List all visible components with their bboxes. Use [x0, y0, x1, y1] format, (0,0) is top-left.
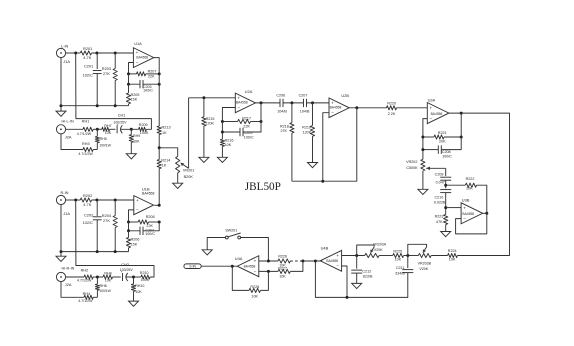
svg-text:100/C: 100/C — [442, 155, 452, 159]
svg-text:R220: R220 — [387, 101, 396, 105]
switch SW201 — [225, 228, 240, 239]
svg-text:J1A: J1A — [63, 59, 70, 64]
svg-text:VR201: VR201 — [183, 169, 195, 173]
svg-text:−: − — [254, 269, 257, 274]
ground — [199, 126, 209, 162]
svg-text:HI-L-IN: HI-L-IN — [62, 120, 74, 124]
svg-text:+: + — [336, 253, 339, 258]
wire — [221, 122, 240, 134]
op-amp U4A — [235, 256, 259, 277]
op-amp U4B — [320, 245, 341, 271]
wire — [444, 180, 447, 188]
wire — [460, 113, 462, 137]
svg-text:U2A: U2A — [245, 89, 253, 94]
wire — [189, 96, 236, 99]
wire — [307, 101, 330, 104]
wire — [483, 212, 489, 215]
svg-text:C207: C207 — [299, 94, 308, 98]
resistor RH4 — [78, 292, 93, 303]
svg-text:R226: R226 — [278, 255, 287, 259]
svg-text:VR203A: VR203A — [373, 243, 387, 247]
wire — [201, 265, 237, 268]
wire — [421, 148, 438, 151]
wire — [61, 250, 129, 253]
resistor R216 — [220, 132, 233, 147]
svg-text:R210: R210 — [140, 271, 149, 275]
wire — [154, 204, 160, 207]
resistor R205 — [126, 84, 139, 106]
wire — [66, 199, 81, 202]
svg-text:R225: R225 — [393, 250, 402, 254]
op-amp U3A — [427, 97, 449, 123]
svg-text:R213: R213 — [162, 125, 171, 129]
svg-text:20K: 20K — [466, 187, 473, 191]
svg-text:BA4558: BA4558 — [330, 106, 342, 110]
wire — [93, 149, 97, 151]
svg-text:0.022B: 0.022B — [434, 200, 446, 204]
svg-text:R205: R205 — [131, 93, 140, 97]
wire — [143, 222, 159, 231]
svg-text:V20K: V20K — [419, 267, 428, 271]
ground — [217, 146, 227, 162]
svg-text:U4B: U4B — [321, 245, 329, 250]
svg-text:20K: 20K — [439, 139, 446, 143]
wire — [221, 120, 238, 123]
op-amp U1B — [134, 186, 155, 214]
resistor R215 — [202, 98, 215, 126]
resistor R214 — [157, 159, 170, 169]
svg-text:10K: 10K — [135, 290, 142, 294]
svg-text:C211: C211 — [396, 266, 405, 270]
wire — [431, 255, 447, 257]
svg-text:22K: 22K — [146, 224, 153, 228]
svg-text:4.7K: 4.7K — [83, 55, 91, 60]
svg-text:120K: 120K — [205, 122, 214, 126]
wire — [66, 52, 81, 55]
svg-text:CH1: CH1 — [118, 113, 126, 117]
resistor R208 — [138, 215, 154, 228]
wire — [110, 128, 116, 130]
wire — [446, 207, 461, 209]
svg-text:U1A: U1A — [134, 41, 142, 46]
svg-text:10K: 10K — [133, 139, 140, 143]
svg-text:4.7K: 4.7K — [83, 202, 91, 207]
capacitor C201 — [83, 53, 102, 106]
wire — [423, 119, 427, 160]
wire — [60, 58, 63, 112]
wire — [404, 254, 419, 257]
resistor R223 — [435, 214, 448, 224]
wire — [261, 271, 269, 290]
op-amp U3B — [461, 197, 483, 223]
wire — [93, 296, 97, 298]
resistor RH10 — [131, 277, 144, 294]
capacitor C202 — [83, 200, 102, 252]
svg-text:RH2: RH2 — [81, 268, 89, 272]
connector J2A (HI-R-IN) — [56, 266, 74, 287]
connector J2A (HI-L-IN) — [56, 120, 74, 140]
ground — [173, 173, 183, 189]
svg-text:C206: C206 — [276, 94, 285, 98]
svg-text:RH4: RH4 — [83, 292, 91, 296]
wire — [342, 254, 365, 257]
svg-text:C500K: C500K — [406, 166, 418, 170]
ground — [202, 250, 212, 255]
svg-text:10K: 10K — [105, 279, 112, 283]
svg-text:R208: R208 — [146, 215, 155, 219]
svg-text:V20K: V20K — [374, 248, 383, 252]
label JBL50P — [245, 181, 281, 193]
ground — [441, 225, 451, 237]
svg-text:10K: 10K — [251, 294, 258, 298]
wire — [158, 135, 161, 160]
wire — [260, 103, 262, 122]
svg-text:10K: 10K — [279, 275, 286, 279]
svg-text:100/1W: 100/1W — [99, 289, 111, 293]
capacitor CH1 — [113, 113, 127, 133]
svg-text:27K: 27K — [103, 71, 110, 76]
wire — [291, 133, 293, 181]
wire — [292, 108, 357, 183]
ground — [352, 273, 362, 289]
resistor R213 — [157, 125, 170, 135]
capacitor C203 — [140, 80, 153, 92]
capacitor C211 — [395, 256, 413, 276]
svg-text:U4A: U4A — [235, 256, 243, 261]
svg-text:R214: R214 — [161, 159, 170, 163]
svg-text:BA4558: BA4558 — [142, 192, 155, 196]
wire — [232, 266, 249, 290]
ground — [56, 111, 66, 116]
wire — [477, 185, 487, 213]
potentiometer VR203B — [418, 253, 432, 270]
capacitor C204 — [140, 227, 155, 237]
svg-text:10K: 10K — [395, 257, 402, 261]
svg-text:+: + — [136, 198, 139, 203]
wire — [357, 245, 375, 256]
resistor RH5 — [95, 129, 111, 149]
svg-text:VR202: VR202 — [406, 160, 417, 164]
wire — [323, 113, 329, 182]
wire — [315, 261, 407, 299]
svg-text:R-IN: R-IN — [61, 190, 69, 195]
svg-text:RH1: RH1 — [82, 120, 90, 124]
svg-text:+: + — [254, 258, 257, 263]
wire — [342, 266, 347, 297]
svg-text:2.2K: 2.2K — [388, 112, 396, 116]
wire — [121, 128, 139, 131]
svg-text:U3B: U3B — [462, 197, 470, 202]
wire — [259, 270, 278, 273]
wire — [180, 98, 188, 169]
svg-text:R224: R224 — [448, 249, 457, 253]
svg-text:4.7/1/2W: 4.7/1/2W — [78, 152, 93, 156]
capacitor C210 — [434, 190, 451, 205]
wire — [127, 221, 138, 224]
connector J1A (L-IN) — [56, 44, 70, 64]
capacitor C205 — [240, 128, 254, 140]
svg-text:100/C: 100/C — [143, 88, 153, 92]
svg-text:R206: R206 — [131, 237, 140, 241]
wire — [259, 260, 278, 263]
svg-text:C208: C208 — [442, 150, 451, 154]
wire — [243, 122, 261, 133]
capacitor C207 — [299, 94, 310, 114]
svg-text:R209: R209 — [139, 123, 148, 127]
svg-text:R201: R201 — [83, 46, 92, 51]
wire — [446, 184, 466, 186]
wire — [92, 199, 134, 202]
potentiometer VR202 — [406, 159, 425, 171]
svg-text:R218: R218 — [280, 124, 289, 128]
capacitor C209 — [435, 168, 452, 184]
resistor R227 — [278, 266, 290, 278]
resistor R228 — [249, 285, 261, 298]
capacitor C208 — [438, 145, 452, 158]
potentiometer VR201 — [176, 156, 195, 179]
svg-text:R202: R202 — [83, 193, 92, 198]
resistor R201 — [80, 46, 92, 60]
svg-text:22K: 22K — [243, 124, 250, 128]
wire — [444, 193, 447, 215]
connector S-IN — [184, 264, 201, 269]
wire — [426, 167, 446, 170]
svg-text:100/C: 100/C — [244, 135, 254, 139]
resistor R225 — [393, 250, 404, 262]
svg-text:−: − — [136, 207, 139, 212]
wire — [158, 169, 160, 206]
svg-text:100/25V: 100/25V — [113, 120, 127, 124]
svg-text:100K: 100K — [140, 131, 149, 135]
resistor R224 — [448, 249, 458, 261]
svg-text:104/B: 104/B — [300, 110, 310, 114]
wire — [60, 205, 63, 257]
wire — [421, 136, 434, 139]
svg-text:R227: R227 — [278, 266, 287, 270]
wire — [113, 276, 121, 278]
op-amp U2B — [329, 93, 349, 117]
wire — [143, 83, 161, 86]
svg-text:J1A: J1A — [63, 211, 70, 216]
ground — [126, 142, 136, 159]
resistor RH1 — [77, 120, 93, 136]
wire — [444, 136, 463, 139]
svg-text:−: − — [336, 264, 339, 269]
svg-text:R215: R215 — [206, 117, 215, 121]
svg-text:RH7: RH7 — [104, 124, 111, 128]
wire — [379, 255, 393, 257]
svg-text:BA4558: BA4558 — [244, 265, 256, 269]
wire — [126, 276, 141, 279]
wire — [127, 74, 140, 86]
ground — [56, 256, 66, 261]
svg-text:15K: 15K — [131, 98, 138, 102]
op-amp U2A — [235, 89, 255, 113]
svg-text:1K: 1K — [162, 164, 167, 168]
resistor R226 — [278, 255, 290, 268]
svg-text:100/C: 100/C — [145, 232, 155, 236]
wire — [66, 128, 83, 130]
svg-text:100K: 100K — [141, 278, 150, 282]
svg-text:BA4558: BA4558 — [136, 56, 148, 60]
svg-text:RH8: RH8 — [104, 272, 111, 276]
svg-text:BA4558: BA4558 — [236, 101, 248, 105]
svg-text:RH3: RH3 — [82, 142, 90, 146]
svg-text:R228: R228 — [250, 285, 259, 289]
svg-text:C209: C209 — [435, 173, 444, 177]
svg-text:BA4558: BA4558 — [431, 112, 443, 116]
wire — [127, 72, 137, 75]
wire — [207, 238, 225, 250]
svg-text:L-IN: L-IN — [61, 44, 69, 49]
wire — [93, 276, 103, 279]
svg-text:27K: 27K — [103, 218, 110, 223]
svg-text:−: − — [430, 116, 433, 121]
svg-text:R222: R222 — [466, 177, 475, 181]
wire — [61, 104, 129, 107]
resistor R210 — [140, 271, 150, 282]
svg-text:4.7/1/2W: 4.7/1/2W — [78, 299, 93, 303]
svg-text:R221: R221 — [438, 131, 447, 135]
svg-text:RH10: RH10 — [135, 284, 144, 288]
svg-text:S-IN: S-IN — [189, 265, 196, 269]
svg-text:120K: 120K — [303, 130, 312, 134]
wire — [76, 53, 152, 129]
resistor RH9 — [129, 129, 140, 143]
capacitor CH2 — [120, 263, 134, 281]
svg-text:RH5: RH5 — [100, 137, 107, 141]
svg-text:−: − — [238, 105, 241, 110]
wire — [408, 244, 427, 255]
svg-text:U1B: U1B — [142, 186, 150, 191]
svg-text:334/B: 334/B — [395, 271, 405, 275]
svg-text:+: + — [136, 50, 139, 55]
svg-text:C210: C210 — [434, 196, 443, 200]
svg-text:J2A: J2A — [65, 282, 72, 287]
wire — [154, 58, 159, 74]
connector J1A (R-IN) — [56, 190, 70, 216]
wire — [349, 106, 386, 109]
svg-text:C212: C212 — [362, 269, 371, 273]
wire — [456, 213, 487, 234]
svg-text:BA4558: BA4558 — [462, 212, 474, 216]
wire — [256, 101, 281, 104]
svg-text:R223: R223 — [435, 214, 444, 218]
resistor R202 — [80, 193, 92, 207]
svg-text:10K: 10K — [449, 257, 456, 261]
resistor RH6 — [95, 277, 111, 297]
wire — [158, 74, 160, 84]
resistor RH7 — [102, 124, 112, 135]
svg-text:4.7/1/2W: 4.7/1/2W — [77, 279, 92, 283]
svg-text:102/C: 102/C — [83, 73, 94, 78]
svg-text:+: + — [430, 105, 433, 110]
svg-text:U3A: U3A — [428, 97, 436, 102]
svg-text:10K: 10K — [225, 143, 232, 147]
resistor R204 — [102, 200, 118, 252]
wire — [222, 108, 235, 122]
resistor R220 — [387, 101, 397, 116]
svg-text:JBL50P: JBL50P — [245, 181, 281, 193]
svg-text:4.7/1/2W: 4.7/1/2W — [77, 132, 92, 136]
resistor R221 — [434, 131, 447, 143]
ground — [418, 171, 428, 195]
wire — [61, 134, 83, 150]
svg-text:100/1W: 100/1W — [99, 144, 111, 148]
svg-text:VR203B: VR203B — [418, 262, 432, 266]
svg-text:RH6: RH6 — [100, 284, 107, 288]
resistor R218 — [280, 103, 294, 133]
svg-text:BA4558: BA4558 — [326, 259, 338, 263]
svg-text:0.047: 0.047 — [436, 180, 445, 184]
svg-text:15K: 15K — [131, 242, 138, 246]
op-amp U1A — [133, 41, 153, 68]
wire — [76, 200, 154, 277]
svg-text:104/B: 104/B — [277, 110, 287, 114]
svg-text:R217: R217 — [242, 117, 251, 121]
svg-text:CH2: CH2 — [121, 263, 129, 267]
wire — [159, 148, 178, 157]
svg-text:47K: 47K — [436, 220, 443, 224]
ground — [129, 291, 139, 306]
resistor R217 — [238, 117, 251, 129]
wire — [301, 260, 322, 263]
svg-text:−: − — [331, 110, 334, 115]
svg-text:22K: 22K — [148, 75, 155, 79]
resistor RH3 — [78, 142, 93, 156]
resistor R222 — [465, 177, 476, 190]
wire — [158, 84, 160, 126]
resistor R206 — [126, 231, 139, 252]
svg-text:−: − — [463, 216, 466, 221]
svg-text:−: − — [136, 60, 139, 65]
svg-text:100/25V: 100/25V — [120, 268, 134, 272]
wire — [129, 210, 134, 222]
svg-text:27K: 27K — [280, 129, 287, 133]
wire — [251, 120, 263, 123]
svg-text:823/B: 823/B — [363, 275, 373, 279]
svg-text:+: + — [463, 206, 466, 211]
svg-text:C202: C202 — [84, 213, 93, 218]
wire — [129, 63, 134, 74]
wire — [127, 222, 140, 232]
wire — [149, 221, 161, 224]
svg-text:J2A: J2A — [65, 135, 72, 140]
svg-text:C201: C201 — [84, 63, 93, 68]
wire — [93, 128, 102, 131]
resistor R209 — [139, 123, 149, 135]
resistor R219 — [302, 103, 314, 136]
wire — [66, 276, 84, 278]
svg-text:1K: 1K — [162, 131, 167, 135]
ground — [308, 136, 318, 167]
wire — [290, 260, 303, 262]
wire — [397, 107, 428, 109]
resistor RH8 — [103, 272, 113, 283]
wire — [283, 101, 304, 104]
wire — [146, 72, 161, 75]
svg-text:102/C: 102/C — [83, 220, 94, 225]
wire — [92, 52, 134, 55]
resistor R203 — [102, 53, 118, 106]
svg-text:R219: R219 — [302, 125, 311, 129]
resistor R207 — [137, 70, 157, 79]
wire — [241, 238, 269, 262]
svg-text:U2B: U2B — [341, 93, 349, 98]
capacitor C212 — [351, 256, 373, 279]
capacitor C206 — [276, 94, 287, 114]
svg-text:SW201: SW201 — [225, 228, 237, 232]
